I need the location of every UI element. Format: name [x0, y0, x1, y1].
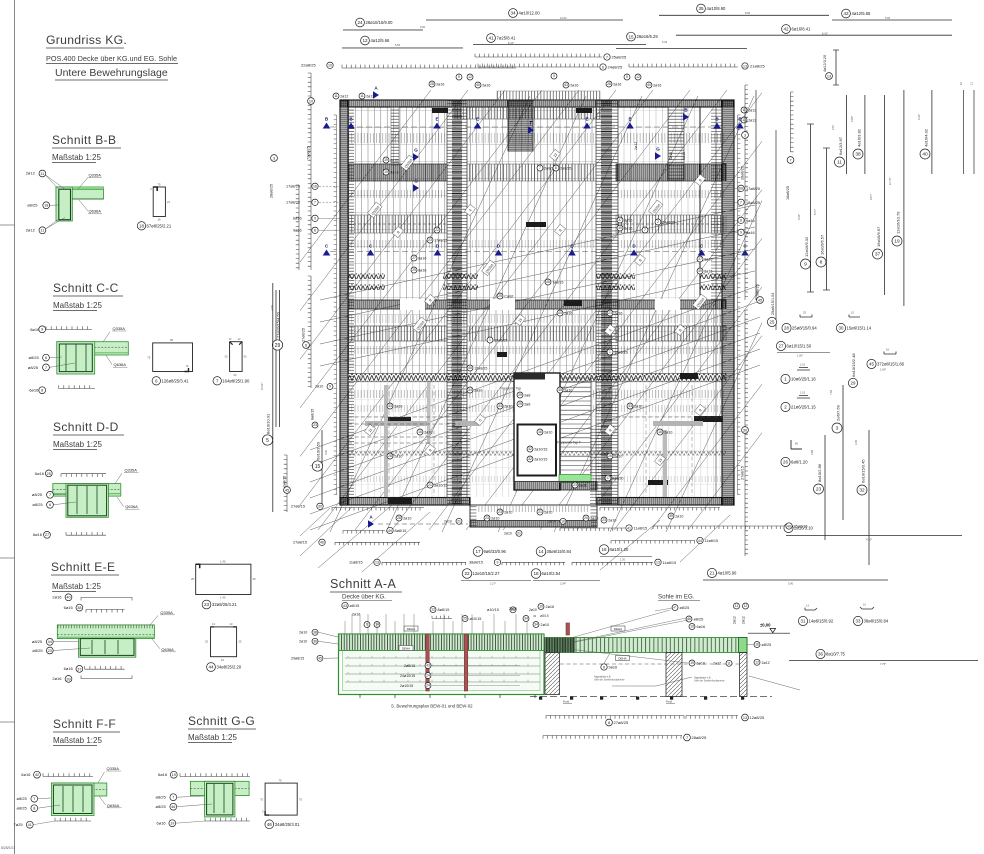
svg-text:6ø8/1.20: 6ø8/1.20	[791, 460, 808, 465]
svg-text:23: 23	[816, 487, 822, 493]
plan interior wall band mid-left	[447, 100, 467, 505]
svg-text:CaIUt: CaIUt	[504, 294, 513, 298]
svg-text:30: 30	[253, 577, 257, 581]
svg-text:ø8/25: ø8/25	[27, 203, 38, 208]
left dim 29 27o10/15/4.50	[275, 290, 277, 427]
svg-text:75: 75	[158, 183, 162, 187]
svg-text:DEHA: DEHA	[402, 646, 410, 650]
svg-text:Q335A: Q335A	[160, 610, 173, 615]
svg-text:35: 35	[558, 388, 562, 392]
svg-text:10: 10	[539, 605, 543, 609]
svg-text:24ø8/25: 24ø8/25	[662, 220, 675, 224]
svg-text:8: 8	[608, 721, 610, 725]
svg-text:29: 29	[518, 393, 522, 397]
section E-E bar detail 44	[211, 627, 237, 657]
section D-D slab (green)	[53, 484, 121, 497]
right dim 9 12o16/9.32	[810, 124, 812, 292]
plan beam band row y164 mid	[467, 164, 596, 181]
plan section line C-D dashes	[330, 251, 745, 253]
plan hugging comb right outside	[738, 115, 741, 495]
svg-text:DEHA: DEHA	[618, 656, 626, 660]
svg-text:2ø10: 2ø10	[315, 385, 323, 389]
svg-text:ø8/25: ø8/25	[680, 606, 690, 610]
svg-text:DEHA: DEHA	[614, 627, 622, 631]
page frame left border line	[14, 0, 16, 854]
svg-text:Maßstab 1:25: Maßstab 1:25	[52, 582, 101, 591]
svg-text:8ø16: 8ø16	[418, 256, 426, 260]
svg-text:2ø8/15: 2ø8/15	[283, 476, 287, 487]
svg-text:Q335A: Q335A	[125, 468, 138, 473]
below-plan big label 16 8o10/1.20	[599, 545, 609, 555]
svg-text:12: 12	[238, 337, 241, 341]
right cluster 2 21o6/25/1.15	[797, 396, 810, 399]
svg-text:11: 11	[735, 604, 739, 608]
right cluster 30 15o6/15/1.14	[849, 315, 860, 318]
svg-text:Q636A: Q636A	[125, 504, 138, 509]
svg-text:25: 25	[239, 640, 242, 644]
svg-text:A: A	[374, 86, 378, 91]
svg-text:3: 3	[553, 74, 555, 78]
svg-text:2ø10: 2ø10	[403, 516, 411, 520]
svg-text:34: 34	[524, 617, 528, 621]
svg-text:11: 11	[40, 172, 44, 176]
svg-text:23: 23	[485, 516, 489, 520]
svg-text:G: G	[414, 148, 418, 153]
svg-text:G: G	[414, 179, 418, 184]
svg-text:POS.400 Decke über KG.und EG.: POS.400 Decke über KG.und EG. Sohle	[46, 54, 177, 63]
svg-text:25: 25	[463, 617, 467, 621]
svg-text:23: 23	[498, 510, 502, 514]
svg-text:19: 19	[894, 239, 900, 245]
svg-text:41: 41	[28, 823, 32, 827]
svg-text:22ø8/25: 22ø8/25	[301, 63, 316, 68]
svg-text:27ø10/15/4.50: 27ø10/15/4.50	[276, 311, 281, 338]
svg-text:29: 29	[412, 268, 416, 272]
A-A junction dense hatch	[544, 638, 575, 653]
svg-text:2ø10: 2ø10	[634, 404, 642, 408]
svg-text:2ø10: 2ø10	[504, 404, 512, 408]
svg-text:±0,00: ±0,00	[760, 623, 771, 628]
svg-text:2: 2	[657, 220, 659, 224]
svg-text:18ø8/25: 18ø8/25	[746, 201, 760, 205]
svg-text:28ø8/25: 28ø8/25	[741, 166, 745, 180]
svg-text:4.10*: 4.10*	[866, 538, 872, 542]
A-A DEHA boxes	[404, 626, 418, 631]
svg-text:16: 16	[959, 81, 963, 85]
A-A right end labels	[754, 642, 760, 648]
svg-text:Q335A: Q335A	[89, 173, 102, 178]
svg-text:164ø8/25/1.90: 164ø8/25/1.90	[222, 378, 250, 383]
svg-text:7: 7	[644, 228, 646, 232]
svg-text:16: 16	[755, 643, 759, 647]
left dim 5 8o10/10.01	[272, 283, 274, 512]
svg-text:2ø10: 2ø10	[541, 623, 550, 627]
plan beam band row y164 left	[348, 164, 447, 181]
svg-text:29: 29	[851, 381, 856, 386]
section G-G bar detail 46	[265, 783, 297, 815]
svg-text:11ø8/15: 11ø8/15	[705, 539, 719, 543]
svg-text:38: 38	[313, 631, 317, 635]
svg-text:12ø8/15: 12ø8/15	[474, 366, 487, 370]
svg-text:9ø8/15: 9ø8/15	[756, 284, 760, 296]
right cluster 28 25o8/15/0.94	[800, 315, 812, 318]
svg-text:11: 11	[727, 662, 731, 666]
plan stairwell bottom dark band	[514, 482, 597, 491]
svg-text:8ø16: 8ø16	[704, 269, 712, 273]
A-A bottom edge ticks	[359, 695, 361, 699]
svg-text:19: 19	[172, 773, 176, 777]
frame tick y225	[0, 224, 15, 226]
svg-text:27ø8/25: 27ø8/25	[302, 328, 306, 342]
A-A left box outline	[339, 634, 545, 695]
svg-text:8ø8/15: 8ø8/15	[395, 529, 407, 533]
A-A bottom comb 8 27o8/25	[546, 716, 684, 719]
svg-text:72ø8/25: 72ø8/25	[307, 146, 311, 160]
svg-text:Grundriss KG.: Grundriss KG.	[46, 33, 127, 47]
svg-text:ø8/25: ø8/25	[32, 502, 43, 507]
svg-text:12: 12	[362, 38, 368, 43]
right cluster 31 14o6/15/0.92	[805, 608, 817, 611]
svg-text:34: 34	[534, 623, 538, 627]
A-A left slab band hatched	[339, 634, 545, 651]
plan rotated mat labels Q335A	[368, 202, 383, 218]
svg-text:17ø8/25: 17ø8/25	[746, 187, 760, 191]
svg-text:4ø10/8.90: 4ø10/8.90	[707, 6, 727, 11]
below-plan comb 49 25o8/15 right	[653, 526, 784, 529]
svg-text:8ø16: 8ø16	[746, 231, 755, 235]
svg-text:45: 45	[318, 657, 322, 661]
svg-text:6ø16: 6ø16	[35, 471, 45, 476]
plan EG-wall gray bars lower room	[365, 421, 427, 426]
plan right wall extra layer upper	[699, 107, 701, 300]
svg-text:2ø10: 2ø10	[544, 430, 552, 434]
svg-text:27ø8/25: 27ø8/25	[614, 720, 629, 725]
svg-text:42: 42	[35, 773, 39, 777]
svg-text:2ø12: 2ø12	[26, 171, 36, 176]
svg-text:6ø16: 6ø16	[64, 605, 74, 610]
top comb 13 21o8/25	[629, 64, 738, 67]
svg-text:23: 23	[204, 602, 210, 607]
svg-text:6: 6	[602, 65, 604, 69]
section B-B stirrup	[59, 189, 71, 220]
right cluster 26 6o8/1.20	[791, 440, 802, 449]
svg-text:13: 13	[375, 561, 379, 565]
top comb 6 24o8/25	[478, 64, 599, 67]
svg-text:6ø10/15/2.48: 6ø10/15/2.48	[851, 353, 856, 377]
svg-text:2ø6/7.69: 2ø6/7.69	[836, 404, 841, 421]
right row labels 66 17o8/25	[738, 185, 744, 191]
top dim 43 4o12/5.65	[842, 9, 851, 18]
svg-text:2ø10: 2ø10	[394, 404, 402, 408]
left vcomb 6 27o8/25	[308, 276, 311, 388]
svg-text:75: 75	[279, 778, 283, 782]
svg-text:28ø10/15/9.00: 28ø10/15/9.00	[366, 20, 394, 25]
right dim 40 4o16/4.02	[931, 90, 933, 174]
svg-text:11: 11	[970, 82, 974, 85]
svg-text:7ø25/8.41: 7ø25/8.41	[497, 36, 517, 41]
svg-text:Schnitt B-B: Schnitt B-B	[52, 133, 116, 147]
svg-text:G: G	[656, 147, 660, 152]
right vcomb lower 27o8/15	[745, 310, 748, 556]
svg-text:2ø10: 2ø10	[504, 510, 512, 514]
svg-text:ø8/25: ø8/25	[32, 648, 43, 653]
A-A support marks	[539, 697, 542, 700]
svg-text:41: 41	[488, 36, 494, 41]
plan beam band row y326 right	[616, 326, 726, 341]
svg-text:5: 5	[266, 438, 269, 444]
A-A inside-box labels	[425, 663, 431, 669]
svg-text:6ø16: 6ø16	[29, 388, 39, 393]
A-A dashed line mid right part	[560, 663, 739, 665]
right dim 37 16o16/9.67	[883, 95, 885, 295]
svg-text:1.40: 1.40	[220, 596, 226, 600]
plan blue A marker bottom	[368, 520, 374, 528]
svg-text:2ø16: 2ø16	[436, 82, 444, 86]
svg-text:30: 30	[225, 355, 228, 359]
svg-text:9: 9	[497, 561, 499, 565]
svg-text:25: 25	[191, 577, 195, 581]
svg-text:8ø8/15: 8ø8/15	[311, 409, 315, 420]
svg-text:16: 16	[418, 430, 422, 434]
svg-text:25ø8/15: 25ø8/15	[794, 525, 808, 529]
svg-text:43: 43	[564, 83, 568, 87]
svg-text:3.67: 3.67	[831, 124, 835, 130]
svg-text:19: 19	[690, 661, 694, 665]
svg-text:42: 42	[783, 27, 789, 32]
section C-C detail label 126o8/25	[152, 377, 160, 385]
svg-text:10: 10	[328, 64, 332, 68]
svg-text:2ø16: 2ø16	[614, 311, 622, 315]
svg-text:40: 40	[647, 83, 651, 87]
svg-text:Sohle im EG.: Sohle im EG.	[658, 594, 695, 601]
svg-text:7: 7	[33, 797, 35, 801]
svg-text:ø8/25: ø8/25	[32, 639, 43, 644]
right dim 25 25o8/15	[775, 130, 777, 330]
svg-text:11: 11	[360, 94, 364, 98]
svg-text:Q335A: Q335A	[107, 766, 120, 771]
svg-text:7ø8/15: 7ø8/15	[552, 280, 563, 284]
section F-F slab (green)	[51, 783, 106, 796]
below-plan big label 22 12o10/15/2.27	[462, 569, 472, 579]
plan shaft top middle	[508, 100, 533, 151]
A-A right sole band	[544, 638, 747, 653]
svg-text:2ø10: 2ø10	[529, 608, 537, 612]
svg-text:6ø10/15/3.45: 6ø10/15/3.45	[861, 459, 866, 483]
plan dashed band y440	[348, 436, 460, 438]
svg-text:16ø8/25: 16ø8/25	[786, 186, 790, 200]
svg-text:41: 41	[627, 526, 631, 530]
svg-text:10.79*: 10.79*	[888, 177, 892, 185]
svg-text:15: 15	[628, 34, 634, 39]
svg-text:4ø16/4.02: 4ø16/4.02	[924, 128, 929, 147]
svg-text:23: 23	[428, 238, 432, 242]
svg-text:46: 46	[267, 822, 273, 827]
plan outer wall left	[340, 100, 348, 505]
svg-text:2ø10: 2ø10	[590, 516, 598, 520]
svg-text:8: 8	[41, 389, 43, 393]
left vcomb 10 72o8/25	[308, 73, 311, 270]
svg-text:32: 32	[528, 447, 532, 451]
svg-text:49: 49	[533, 614, 537, 618]
right cluster 1 10o6/25/1.16	[797, 368, 810, 371]
plan stairwell top band dark	[514, 373, 545, 380]
svg-text:14ø6/15/0.92: 14ø6/15/0.92	[809, 619, 834, 624]
svg-text:29: 29	[518, 402, 522, 406]
svg-text:3.82*: 3.82*	[850, 116, 854, 122]
svg-text:2ø10/15: 2ø10/15	[400, 684, 413, 688]
section G-G slab (green)	[190, 781, 249, 795]
svg-text:ø8/25: ø8/25	[29, 355, 40, 360]
svg-text:6ø16: 6ø16	[293, 217, 302, 221]
right row labels 7 18o8/25	[738, 199, 744, 205]
svg-text:66: 66	[739, 187, 743, 191]
svg-text:3: 3	[262, 810, 264, 814]
svg-text:49: 49	[388, 529, 392, 533]
svg-text:3: 3	[150, 187, 152, 191]
svg-text:9: 9	[366, 623, 368, 627]
svg-text:E: E	[585, 117, 588, 122]
svg-text:2ø10: 2ø10	[394, 454, 402, 458]
svg-text:25: 25	[205, 640, 208, 644]
svg-text:6ø16: 6ø16	[697, 625, 706, 629]
svg-text:ø10/15: ø10/15	[470, 617, 482, 621]
svg-text:16: 16	[313, 185, 317, 189]
svg-text:2ø16: 2ø16	[653, 83, 661, 87]
svg-text:2ø12: 2ø12	[340, 94, 348, 98]
svg-text:B: B	[325, 117, 329, 122]
svg-text:ø8/25: ø8/25	[762, 643, 772, 647]
svg-text:27: 27	[412, 256, 416, 260]
plan outer wall right	[722, 100, 734, 505]
svg-text:6ø16/8.41: 6ø16/8.41	[792, 27, 812, 32]
svg-text:1.16: 1.16	[800, 363, 806, 367]
svg-text:37: 37	[618, 218, 622, 222]
below-plan comb 41 11o8/15	[560, 528, 625, 531]
svg-text:Untere Bewehrungslage: Untere Bewehrungslage	[55, 67, 168, 79]
svg-text:25: 25	[498, 294, 502, 298]
svg-text:Maßstab 1:25: Maßstab 1:25	[52, 153, 101, 162]
plan light tick rows upper rooms	[348, 133, 447, 143]
svg-text:Q636A: Q636A	[107, 803, 120, 808]
svg-text:23: 23	[313, 423, 317, 427]
plan lower room dashed verticals	[388, 385, 390, 496]
svg-text:25ø8/15/0.94: 25ø8/15/0.94	[792, 326, 817, 331]
svg-text:36: 36	[818, 652, 823, 657]
svg-text:Schnitt A-A: Schnitt A-A	[330, 577, 396, 591]
svg-text:2ø12: 2ø12	[634, 142, 638, 150]
svg-text:1.50*: 1.50*	[797, 354, 803, 358]
svg-text:13: 13	[743, 716, 747, 720]
svg-text:39: 39	[66, 677, 70, 681]
svg-text:Q636A: Q636A	[89, 209, 102, 214]
svg-text:8ø10/7.75: 8ø10/7.75	[826, 652, 846, 657]
svg-text:19: 19	[690, 625, 694, 629]
svg-text:40: 40	[922, 152, 928, 158]
section B-B column (green)	[56, 187, 72, 221]
plan elevator shaft box	[518, 425, 557, 476]
svg-text:Q335A: Q335A	[113, 326, 126, 331]
svg-text:15ø6/15/1.14: 15ø6/15/1.14	[847, 326, 872, 331]
svg-text:39: 39	[618, 226, 622, 230]
svg-text:6ø16: 6ø16	[158, 772, 168, 777]
svg-text:3: 3	[273, 156, 275, 160]
top comb 7 25o8/25	[475, 54, 602, 57]
svg-text:21: 21	[710, 571, 715, 576]
svg-text:44: 44	[208, 665, 214, 670]
svg-text:2ø8: 2ø8	[524, 393, 530, 397]
svg-text:2ø8: 2ø8	[524, 402, 530, 406]
plan main zigzag band y373	[348, 374, 726, 382]
top right vertical bar 13 4o12/3.20	[835, 50, 837, 85]
svg-text:ø8/25: ø8/25	[17, 796, 28, 801]
svg-text:7ø25: 7ø25	[14, 822, 24, 827]
svg-text:2.54*: 2.54*	[560, 582, 566, 586]
plan beam band row y326 left	[348, 326, 447, 341]
svg-text:30: 30	[839, 326, 844, 331]
svg-text:16: 16	[158, 218, 162, 222]
svg-text:14: 14	[538, 549, 544, 554]
plan mid wall y300	[348, 300, 726, 309]
A-A pier right end	[740, 653, 748, 697]
plan top wall dense band	[455, 107, 600, 119]
below-plan comb 49 8o8/15 left	[343, 531, 385, 534]
svg-text:3: 3	[836, 426, 839, 432]
svg-text:9: 9	[329, 385, 331, 389]
plan section line B dashes	[330, 126, 745, 128]
svg-text:60: 60	[234, 373, 237, 377]
svg-text:30: 30	[318, 505, 322, 509]
svg-text:2ø16: 2ø16	[352, 613, 360, 617]
plan left wall inner ticks	[348, 107, 354, 497]
svg-text:ø8/15: ø8/15	[350, 604, 360, 608]
section E-E detail label 34o8/25 2.20	[207, 663, 216, 672]
svg-text:3: 3	[744, 133, 746, 137]
svg-text:Fund.: Fund.	[563, 700, 570, 704]
svg-text:30: 30	[244, 355, 247, 359]
svg-text:8ø8/15: 8ø8/15	[438, 608, 450, 612]
svg-text:7: 7	[539, 166, 541, 170]
svg-text:8: 8	[740, 219, 742, 223]
svg-text:33: 33	[498, 404, 502, 408]
svg-text:45: 45	[285, 488, 289, 492]
svg-text:28: 28	[607, 82, 611, 86]
svg-text:8ø10/10.01: 8ø10/10.01	[266, 413, 271, 434]
svg-text:24ø10/15: 24ø10/15	[400, 674, 415, 678]
svg-text:2ø10: 2ø10	[509, 607, 517, 611]
svg-text:6ø10/15/1.50: 6ø10/15/1.50	[787, 344, 812, 349]
plan beam band row y326 mid	[467, 326, 596, 341]
svg-text:20: 20	[584, 516, 588, 520]
svg-text:23: 23	[48, 649, 52, 653]
svg-text:21: 21	[538, 510, 542, 514]
right cluster 27 6o10/15/1.50	[776, 341, 785, 350]
svg-text:3ø10/15: 3ø10/15	[434, 483, 447, 487]
svg-text:2.27*: 2.27*	[490, 582, 496, 586]
plan black lintel bars	[388, 417, 411, 423]
svg-text:8: 8	[314, 229, 316, 233]
svg-text:16ø16/6.57: 16ø16/6.57	[820, 234, 825, 255]
svg-text:F: F	[530, 121, 533, 126]
svg-text:21: 21	[428, 483, 432, 487]
svg-text:25: 25	[803, 311, 806, 315]
plan zigzag light row y453	[348, 451, 726, 456]
svg-text:7.69: 7.69	[829, 389, 833, 395]
svg-text:6ø16: 6ø16	[697, 662, 706, 666]
svg-text:32ø8/25/4.21: 32ø8/25/4.21	[212, 602, 237, 607]
plan outer wall top	[340, 100, 734, 107]
svg-text:11ø8/15: 11ø8/15	[349, 561, 363, 565]
A-A leaders from junction	[560, 610, 670, 641]
